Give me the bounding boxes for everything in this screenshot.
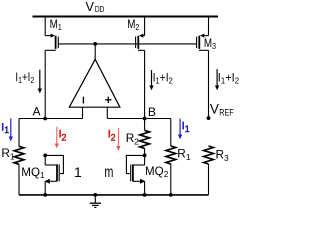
transistor M2 xyxy=(136,17,145,119)
ground symbol xyxy=(90,195,101,208)
junction MQ1 source xyxy=(43,193,47,197)
current arrow I2 red left xyxy=(55,127,59,149)
transistor M3 xyxy=(197,17,209,119)
current arrow I1+I2 branch2 xyxy=(149,70,153,90)
svg-text:1: 1 xyxy=(4,125,9,135)
wire right R1 branch xyxy=(170,119,172,147)
wire op-amp plus foot xyxy=(106,107,108,118)
svg-text:2: 2 xyxy=(111,132,116,142)
I1+I2 label branch2 xyxy=(153,72,173,86)
current arrow I1+I2 branch1 xyxy=(38,70,42,94)
I2 label red left xyxy=(59,130,61,138)
resistor R1 right xyxy=(166,146,176,164)
resistor R1 left xyxy=(14,146,24,164)
wire node A horizontal xyxy=(19,118,83,120)
node VREF junction xyxy=(207,116,211,120)
junction MQ2 source xyxy=(143,193,147,197)
wire op-amp minus foot xyxy=(82,107,84,118)
I1+I2 label branch1 xyxy=(15,71,34,85)
wire R2 top xyxy=(144,119,146,131)
M3 label xyxy=(204,38,216,52)
gate rail xyxy=(58,43,196,45)
wire op-amp output stub xyxy=(94,44,96,60)
I2 label red right xyxy=(109,130,111,138)
I1+I2 label branch3 xyxy=(218,72,240,85)
M2 label xyxy=(127,19,139,33)
svg-text:REF: REF xyxy=(219,107,233,117)
transistor M1 xyxy=(45,17,58,119)
VREF subscript xyxy=(219,107,233,117)
current arrow I1+I2 branch3 xyxy=(215,69,219,90)
svg-text:V: V xyxy=(210,101,219,116)
op-amp U1 xyxy=(69,59,120,107)
I1 label blue right xyxy=(182,122,184,130)
svg-text:2: 2 xyxy=(61,132,66,142)
svg-text:B: B xyxy=(148,105,156,119)
VDD rail xyxy=(33,16,219,18)
resistor R2 xyxy=(140,130,150,148)
svg-text:A: A xyxy=(33,104,41,118)
svg-text:DD: DD xyxy=(95,5,105,15)
current arrow I1 blue right xyxy=(178,119,182,140)
svg-text:V: V xyxy=(86,0,95,14)
wire R1 right bottom xyxy=(170,164,172,195)
wire R3 bottom xyxy=(208,164,210,195)
junction ground xyxy=(93,193,97,197)
node B junction xyxy=(143,117,147,121)
current arrow I2 red right xyxy=(116,128,120,151)
resistor R3 xyxy=(204,146,214,164)
wire R1 left bottom xyxy=(18,164,20,195)
wire R2 bottom xyxy=(144,148,146,155)
wire node B horizontal xyxy=(107,118,171,120)
ground rail xyxy=(19,194,209,196)
transistor MQ1 xyxy=(43,154,63,195)
svg-text:1: 1 xyxy=(185,124,190,134)
node A junction xyxy=(43,117,47,121)
svg-text:1: 1 xyxy=(74,164,82,180)
node: op-amp output junction xyxy=(93,42,97,46)
junction R1 right bottom xyxy=(169,193,173,197)
current arrow I1 blue left xyxy=(9,119,13,142)
transistor MQ2 xyxy=(126,154,146,195)
M1 label xyxy=(50,18,62,32)
VDD subscript xyxy=(95,5,105,15)
wire left branch vertical xyxy=(18,119,20,147)
I1 label blue left xyxy=(2,123,4,131)
ratio label m xyxy=(104,163,113,180)
svg-text:m: m xyxy=(104,163,113,180)
